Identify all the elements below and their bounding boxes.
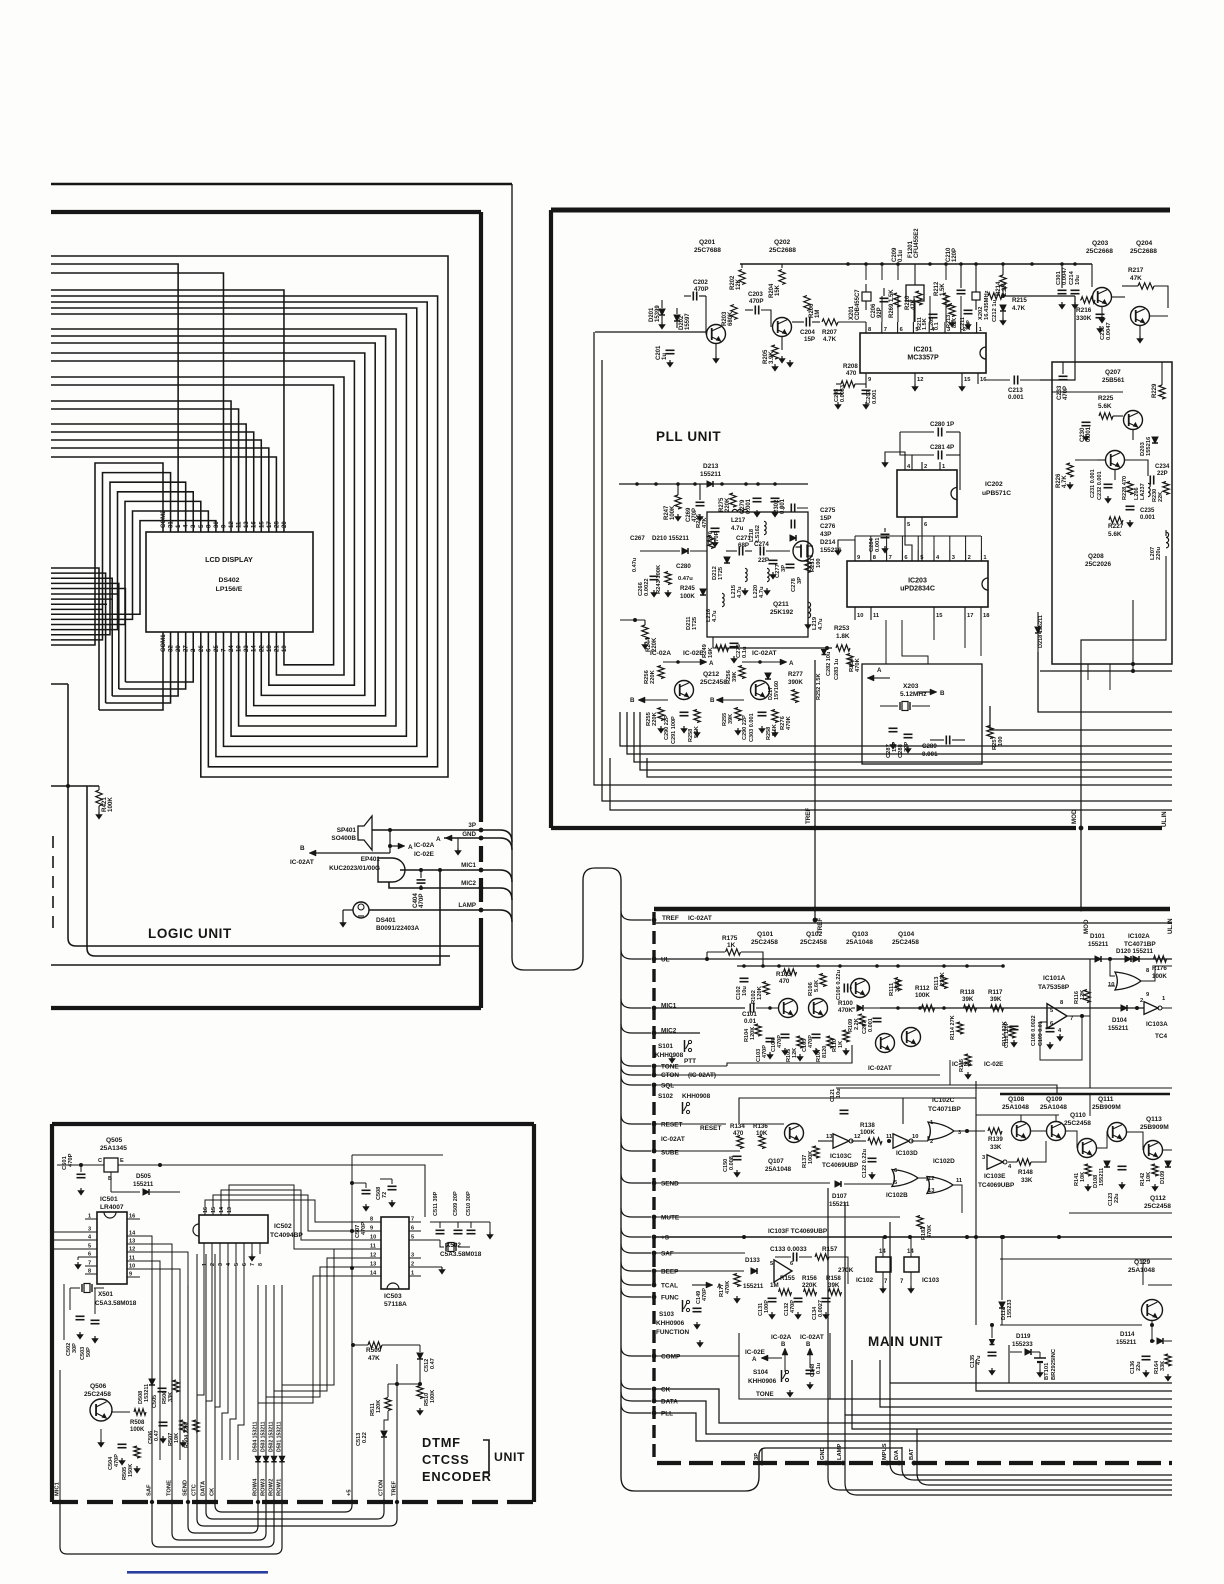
wire bus branch (621, 1262, 651, 1271)
or gate IC102C (928, 1122, 954, 1140)
svg-text:R138: R138 (860, 1122, 875, 1129)
svg-text:Q101: Q101 (757, 931, 774, 938)
wire LCD bottom pin 6 wrap (51, 296, 438, 767)
svg-text:22P: 22P (758, 557, 769, 564)
svg-text:4.7u: 4.7u (737, 586, 743, 598)
resistor R203 (731, 305, 737, 320)
wire SQL line (654, 1085, 1057, 1094)
wire LCD top pin 20 (51, 290, 284, 532)
svg-text:SEND: SEND (661, 1181, 679, 1188)
IC202 pin4 gnd wire (885, 452, 905, 462)
ground (342, 920, 344, 923)
svg-text:C204: C204 (800, 329, 815, 336)
svg-text:MAIN UNIT: MAIN UNIT (868, 1334, 943, 1349)
svg-text:EP401: EP401 (361, 856, 381, 863)
svg-text:100: 100 (998, 736, 1004, 746)
svg-text:IC101A: IC101A (1043, 975, 1066, 982)
svg-text:BT101: BT101 (1044, 1362, 1050, 1380)
svg-text:C280: C280 (676, 563, 691, 570)
svg-text:GND: GND (820, 1447, 826, 1460)
svg-text:4: 4 (226, 1263, 232, 1266)
svg-text:4.7u: 4.7u (818, 618, 824, 630)
svg-text:ROW1: ROW1 (277, 1478, 283, 1496)
collector rail (737, 965, 1003, 967)
wire UL (654, 958, 1090, 960)
svg-text:PTT: PTT (684, 1058, 696, 1065)
svg-text:155211: 155211 (700, 471, 721, 478)
svg-text:IC503: IC503 (384, 1293, 402, 1300)
svg-text:S103: S103 (659, 1311, 674, 1318)
svg-text:SEND: SEND (183, 1480, 189, 1496)
svg-text:2: 2 (930, 1139, 933, 1145)
transistor Q2xx (1106, 451, 1125, 470)
svg-text:25C2458: 25C2458 (84, 1391, 111, 1398)
wire CK (654, 1389, 1172, 1423)
svg-text:3P: 3P (468, 822, 476, 829)
svg-text:100K: 100K (808, 1151, 814, 1164)
X203 box (862, 664, 982, 764)
wire LCD bottom pin 23 wrap (51, 336, 386, 716)
svg-text:155211: 155211 (1088, 941, 1109, 948)
wire SQL riser (949, 1060, 951, 1085)
svg-text:100K: 100K (130, 1427, 145, 1433)
lamp DS401 (353, 902, 369, 918)
svg-text:25C2458: 25C2458 (700, 679, 727, 686)
svg-text:330K: 330K (1076, 315, 1092, 322)
svg-text:470K: 470K (927, 1225, 933, 1238)
wire Q506 (111, 1411, 130, 1413)
svg-text:R134: R134 (730, 1123, 745, 1130)
svg-text:2: 2 (411, 1262, 414, 1268)
svg-text:0.1: 0.1 (934, 322, 940, 330)
svg-text:R216: R216 (1076, 307, 1092, 314)
svg-text:UL.IN: UL.IN (1162, 811, 1168, 827)
wire bus branch (621, 1142, 651, 1151)
IC102 power block (876, 1257, 891, 1272)
svg-text:TC4069UBP: TC4069UBP (822, 1162, 859, 1169)
blue reference mark (127, 1571, 268, 1574)
svg-text:RESET: RESET (700, 1125, 721, 1132)
svg-text:LS162: LS162 (755, 525, 761, 542)
wire TREF vertical (814, 660, 816, 828)
svg-text:R114 27K: R114 27K (950, 1015, 956, 1040)
wire LCD bottom pin 25 wrap (51, 302, 427, 757)
caps right of VCO (790, 504, 792, 513)
svg-text:IC-02AT: IC-02AT (290, 859, 314, 866)
svg-text:0.47u: 0.47u (632, 557, 638, 572)
S104 sub box (739, 1333, 830, 1399)
svg-text:470: 470 (779, 978, 790, 985)
inverter IC103C (833, 1134, 849, 1148)
op-amp IC101A (1047, 1004, 1067, 1029)
svg-text:3: 3 (952, 555, 955, 561)
IC IC502 TC4094BP (199, 1215, 268, 1243)
logic unit right border (479, 212, 483, 822)
wire inter-unit bus (620, 712, 1172, 746)
svg-text:MOD: MOD (1083, 919, 1090, 934)
svg-text:D213: D213 (703, 463, 719, 470)
svg-text:R139: R139 (988, 1136, 1003, 1143)
wire +5 node (350, 1266, 354, 1270)
wire bus branch (621, 1076, 651, 1085)
svg-text:C505: C505 (152, 1395, 158, 1408)
svg-text:R176: R176 (1152, 965, 1167, 972)
wire bus branch (621, 1115, 651, 1124)
svg-text:IC202: IC202 (985, 481, 1003, 488)
transistor Q203 (1093, 288, 1112, 307)
PLL unit top border (551, 208, 1170, 213)
svg-text:6: 6 (242, 1263, 248, 1266)
svg-text:12: 12 (129, 1247, 135, 1253)
svg-text:Q102: Q102 (806, 931, 823, 938)
svg-text:680K: 680K (728, 311, 734, 326)
wire bus branch (621, 1380, 651, 1389)
svg-text:R252 1.5K: R252 1.5K (816, 673, 822, 700)
svg-text:16: 16 (203, 1207, 209, 1213)
wire Q201 emitter gnd (715, 344, 717, 356)
inverter IC103D (893, 1134, 909, 1148)
svg-text:MIC1: MIC1 (461, 862, 476, 869)
svg-text:7: 7 (250, 1263, 256, 1266)
svg-text:IC-02AT: IC-02AT (800, 1334, 824, 1341)
svg-text:0.47u: 0.47u (678, 576, 693, 582)
svg-text:470K: 470K (725, 1281, 731, 1294)
wire Q203-Q204 (1091, 264, 1093, 287)
svg-text:B: B (781, 1342, 786, 1348)
svg-text:4.7K: 4.7K (1012, 305, 1026, 312)
svg-text:2: 2 (924, 464, 927, 470)
svg-text:0.001: 0.001 (872, 389, 878, 404)
svg-text:TC4: TC4 (1155, 1033, 1168, 1040)
svg-text:12: 12 (928, 1176, 934, 1182)
svg-text:IC-02E: IC-02E (984, 1061, 1003, 1068)
or gate IC102A (1115, 972, 1141, 990)
svg-text:GND: GND (462, 831, 476, 838)
svg-text:0.47: 0.47 (154, 1430, 160, 1441)
svg-text:15K: 15K (775, 284, 781, 296)
op-amp IC101B (774, 1260, 792, 1282)
svg-text:KUC2023/01/00G: KUC2023/01/00G (329, 865, 380, 872)
svg-text:15V160: 15V160 (774, 681, 780, 700)
sub box inner wires (1052, 391, 1123, 393)
svg-text:C232 0.001: C232 0.001 (1097, 471, 1103, 500)
wire MIC1 drop (438, 868, 442, 872)
or gate IC102B (892, 1170, 918, 1187)
svg-text:uPD2834C: uPD2834C (900, 586, 935, 593)
svg-text:57118A: 57118A (384, 1301, 407, 1308)
svg-text:D104: D104 (1112, 1017, 1127, 1024)
svg-text:33K: 33K (1021, 1177, 1033, 1184)
svg-text:D133: D133 (745, 1257, 760, 1264)
svg-text:KHH0908: KHH0908 (682, 1093, 711, 1100)
wire collector rail (740, 263, 1092, 265)
wire TONE line (654, 1065, 727, 1067)
svg-text:43P: 43P (820, 531, 832, 538)
svg-text:100K: 100K (915, 992, 930, 999)
svg-text:+5: +5 (347, 1489, 353, 1496)
wire MIC1 line (654, 1007, 745, 1009)
svg-text:25B909M: 25B909M (1092, 1104, 1121, 1111)
svg-text:DS401: DS401 (376, 917, 396, 924)
svg-text:2: 2 (968, 555, 971, 561)
svg-text:CTON: CTON (379, 1480, 385, 1496)
svg-text:R509: R509 (366, 1347, 382, 1354)
wire LCD bottom pin COM1 (51, 568, 99, 710)
wire CTON riser (384, 1411, 388, 1430)
svg-text:6: 6 (790, 1261, 793, 1267)
wire LCD top pin COM2 frame (51, 463, 163, 645)
svg-text:100K: 100K (430, 1390, 436, 1403)
svg-text:IC-02A: IC-02A (771, 1334, 792, 1341)
svg-text:Q207: Q207 (1105, 369, 1121, 376)
LCD display DS402 box (146, 532, 313, 632)
wire SP (372, 829, 481, 831)
svg-text:10: 10 (1108, 982, 1114, 988)
svg-text:6: 6 (88, 1252, 91, 1258)
svg-text:C203: C203 (748, 291, 763, 298)
svg-text:SQL: SQL (661, 1083, 674, 1090)
frame around crystal (63, 1284, 65, 1340)
svg-text:3P: 3P (797, 577, 803, 584)
wire LCD bottom pin 22 wrap (51, 353, 365, 695)
svg-text:RESET: RESET (661, 1122, 682, 1129)
svg-text:R100: R100 (838, 1000, 853, 1007)
IC201 pin grounds (914, 384, 916, 387)
bottom connector line (657, 1461, 1172, 1465)
svg-text:Q212: Q212 (703, 671, 720, 678)
svg-text:4.7K: 4.7K (1062, 475, 1068, 488)
svg-text:DATA: DATA (661, 1399, 678, 1406)
svg-text:15597: 15597 (685, 313, 691, 330)
svg-text:C234: C234 (1155, 464, 1170, 470)
wire LCD top pin 13 (51, 424, 246, 532)
svg-text:13: 13 (227, 1207, 233, 1213)
svg-text:7: 7 (411, 1217, 414, 1223)
logic unit bottom border (51, 1006, 481, 1010)
svg-text:1.5K: 1.5K (922, 318, 928, 330)
svg-text:R175: R175 (722, 935, 738, 942)
wire LCD bottom pin 2 (51, 589, 125, 682)
svg-text:10u: 10u (836, 1088, 842, 1098)
svg-text:IC-02E: IC-02E (683, 650, 704, 657)
junction dots at border (479, 828, 484, 833)
wire bus branch (621, 1347, 651, 1356)
svg-text:Q506: Q506 (90, 1383, 107, 1390)
wire bus branch (621, 1244, 651, 1253)
wire from left border (595, 331, 706, 333)
svg-text:X203: X203 (903, 683, 919, 690)
svg-text:17: 17 (967, 613, 973, 619)
wire dtmf top rail (352, 1182, 366, 1184)
svg-text:155211: 155211 (829, 1201, 850, 1208)
wire SUBE line (654, 1150, 740, 1152)
svg-text:C235: C235 (1140, 508, 1155, 514)
svg-text:39K: 39K (732, 671, 738, 682)
svg-text:C509 20P: C509 20P (453, 1191, 459, 1216)
wire DTMF interconnect (152, 1502, 274, 1547)
resistor R182 (917, 1216, 923, 1229)
svg-text:1T25: 1T25 (692, 616, 698, 630)
svg-text:0.1u: 0.1u (898, 250, 904, 262)
svg-text:A: A (789, 660, 794, 667)
svg-text:TONE: TONE (167, 1480, 173, 1496)
svg-text:Q111: Q111 (1098, 1096, 1114, 1103)
svg-text:ENCODER: ENCODER (422, 1469, 492, 1484)
svg-text:5: 5 (88, 1244, 91, 1250)
svg-text:25C2688: 25C2688 (1130, 248, 1157, 255)
capacitor C204 (805, 318, 807, 327)
svg-text:25A1345: 25A1345 (100, 1145, 127, 1152)
svg-text:Q107: Q107 (768, 1158, 784, 1165)
IC201 top pins (865, 322, 867, 333)
wire inter-unit bus (602, 360, 1172, 801)
svg-text:Q103: Q103 (852, 931, 869, 938)
svg-text:6: 6 (894, 1168, 897, 1174)
svg-text:C274: C274 (754, 541, 769, 548)
svg-text:S104: S104 (753, 1369, 768, 1376)
svg-text:Q203: Q203 (1092, 240, 1109, 247)
wire LCD bottom pin 7 wrap (51, 308, 417, 746)
transistor Q113 (1144, 1141, 1163, 1160)
wire LCD bottom pin 29 (51, 578, 112, 696)
VCO box (707, 512, 808, 637)
diode D107 (835, 1181, 841, 1187)
svg-text:B: B (710, 697, 715, 704)
svg-text:0.0047: 0.0047 (1106, 322, 1112, 340)
IC103 power block (904, 1257, 919, 1272)
IC IC203 uPD2834C (847, 561, 988, 607)
wire inter-unit bus (990, 706, 1172, 730)
wire GND arrow (444, 837, 481, 839)
svg-text:B: B (630, 697, 635, 704)
svg-text:13: 13 (826, 1134, 832, 1140)
svg-text:R157: R157 (822, 1246, 838, 1253)
svg-text:470K: 470K (786, 715, 792, 730)
wire bus (880, 1360, 1172, 1407)
svg-text:470P: 470P (762, 1045, 768, 1058)
label 3P (761, 1448, 763, 1463)
svg-text:10u: 10u (742, 986, 748, 996)
svg-text:0.0047: 0.0047 (1062, 267, 1068, 285)
svg-text:+S: +S (661, 1235, 670, 1242)
wire DTMF interconnect (215, 1502, 352, 1512)
svg-text:0.001: 0.001 (868, 1018, 874, 1032)
svg-text:1K: 1K (838, 1041, 844, 1048)
svg-text:6: 6 (411, 1226, 414, 1232)
wire DTMF interconnect (172, 1502, 266, 1540)
transistor Q201 (707, 325, 726, 344)
wire B arrow (389, 846, 391, 853)
svg-text:MC3357P: MC3357P (907, 355, 939, 362)
wire DTMF interconnect (197, 1502, 397, 1526)
svg-text:11: 11 (370, 1244, 376, 1250)
svg-text:22u: 22u (1136, 1361, 1142, 1371)
svg-text:IC-02AT: IC-02AT (688, 915, 712, 922)
wire IC203 pin15 down (933, 620, 935, 640)
bottom bus vertical wires (59, 1370, 61, 1502)
svg-text:CDB455C7: CDB455C7 (855, 289, 861, 320)
svg-text:BEEP: BEEP (661, 1269, 679, 1276)
wire LCD bottom pin 32 (51, 573, 106, 703)
svg-text:MIC2: MIC2 (461, 880, 476, 887)
svg-text:155216: 155216 (1146, 437, 1152, 456)
wire bus branch (621, 1066, 651, 1075)
svg-text:25C2458: 25C2458 (1144, 1203, 1171, 1210)
VCO top rail (619, 483, 808, 485)
svg-text:IC103F TC4069UBP: IC103F TC4069UBP (768, 1228, 828, 1235)
svg-text:C267: C267 (630, 535, 645, 542)
wire TREF line (654, 922, 1172, 924)
svg-text:B: B (300, 845, 305, 852)
svg-text:25A1048: 25A1048 (1040, 1104, 1067, 1111)
svg-text:A: A (752, 1356, 757, 1363)
svg-text:LAMP: LAMP (837, 1444, 843, 1460)
wire bus branch (621, 911, 651, 920)
wire LCD bottom pin 19 wrap (51, 385, 334, 665)
svg-text:D210 155211: D210 155211 (652, 535, 689, 542)
svg-text:7: 7 (889, 555, 892, 561)
svg-text:22K: 22K (1158, 492, 1164, 502)
svg-text:47K: 47K (702, 517, 708, 528)
svg-text:PLL UNIT: PLL UNIT (656, 429, 721, 444)
svg-text:8: 8 (258, 1263, 264, 1266)
svg-text:ROW3: ROW3 (261, 1479, 267, 1496)
svg-text:155216: 155216 (820, 547, 842, 554)
svg-text:IC102D: IC102D (933, 1158, 955, 1165)
svg-text:0.0022: 0.0022 (644, 578, 650, 596)
wire gnd pin2 (421, 1266, 442, 1268)
svg-text:R112: R112 (915, 985, 930, 992)
wire inter-unit bus (647, 758, 1172, 777)
svg-text:220K: 220K (650, 669, 656, 684)
svg-text:12: 12 (917, 377, 923, 383)
logic left dashed border (52, 836, 54, 928)
dtmf net wires (140, 1236, 152, 1460)
svg-text:8: 8 (370, 1217, 373, 1223)
svg-text:D502 153211: D502 153211 (269, 1421, 275, 1452)
svg-text:22P: 22P (1157, 471, 1168, 477)
svg-text:470P: 470P (418, 894, 425, 909)
IC201 pin risers (881, 296, 883, 322)
svg-text:C: C (98, 1158, 102, 1164)
inverter IC103E (987, 1155, 1003, 1169)
svg-text:Q208: Q208 (1088, 553, 1104, 560)
svg-text:220u: 220u (1156, 546, 1162, 560)
wire RESET line (654, 1123, 726, 1125)
wire bus (51, 603, 107, 605)
svg-text:155211: 155211 (1108, 1025, 1129, 1032)
svg-text:Q201: Q201 (699, 239, 716, 246)
wire bus branch (621, 1288, 651, 1297)
svg-text:100K: 100K (1152, 973, 1167, 980)
svg-text:13: 13 (928, 1188, 934, 1194)
supply rail dots (846, 262, 850, 266)
FET Q211 2SK192 (793, 541, 813, 561)
node R214/R215 (1001, 294, 1005, 298)
svg-text:270K: 270K (838, 1267, 854, 1274)
svg-text:IC-02E: IC-02E (745, 1349, 766, 1356)
svg-text:3: 3 (411, 1253, 414, 1259)
svg-text:D/A: D/A (894, 1449, 900, 1460)
svg-text:IC102A: IC102A (1128, 933, 1150, 940)
transistor Q212 (675, 681, 694, 700)
svg-text:TC4071BP: TC4071BP (1124, 941, 1156, 948)
svg-text:R207: R207 (822, 329, 837, 336)
svg-text:1: 1 (202, 1263, 208, 1266)
wire BEEP line (654, 1270, 744, 1272)
wire CTON line (654, 1074, 940, 1076)
wire DTMF interconnect (188, 1502, 258, 1533)
